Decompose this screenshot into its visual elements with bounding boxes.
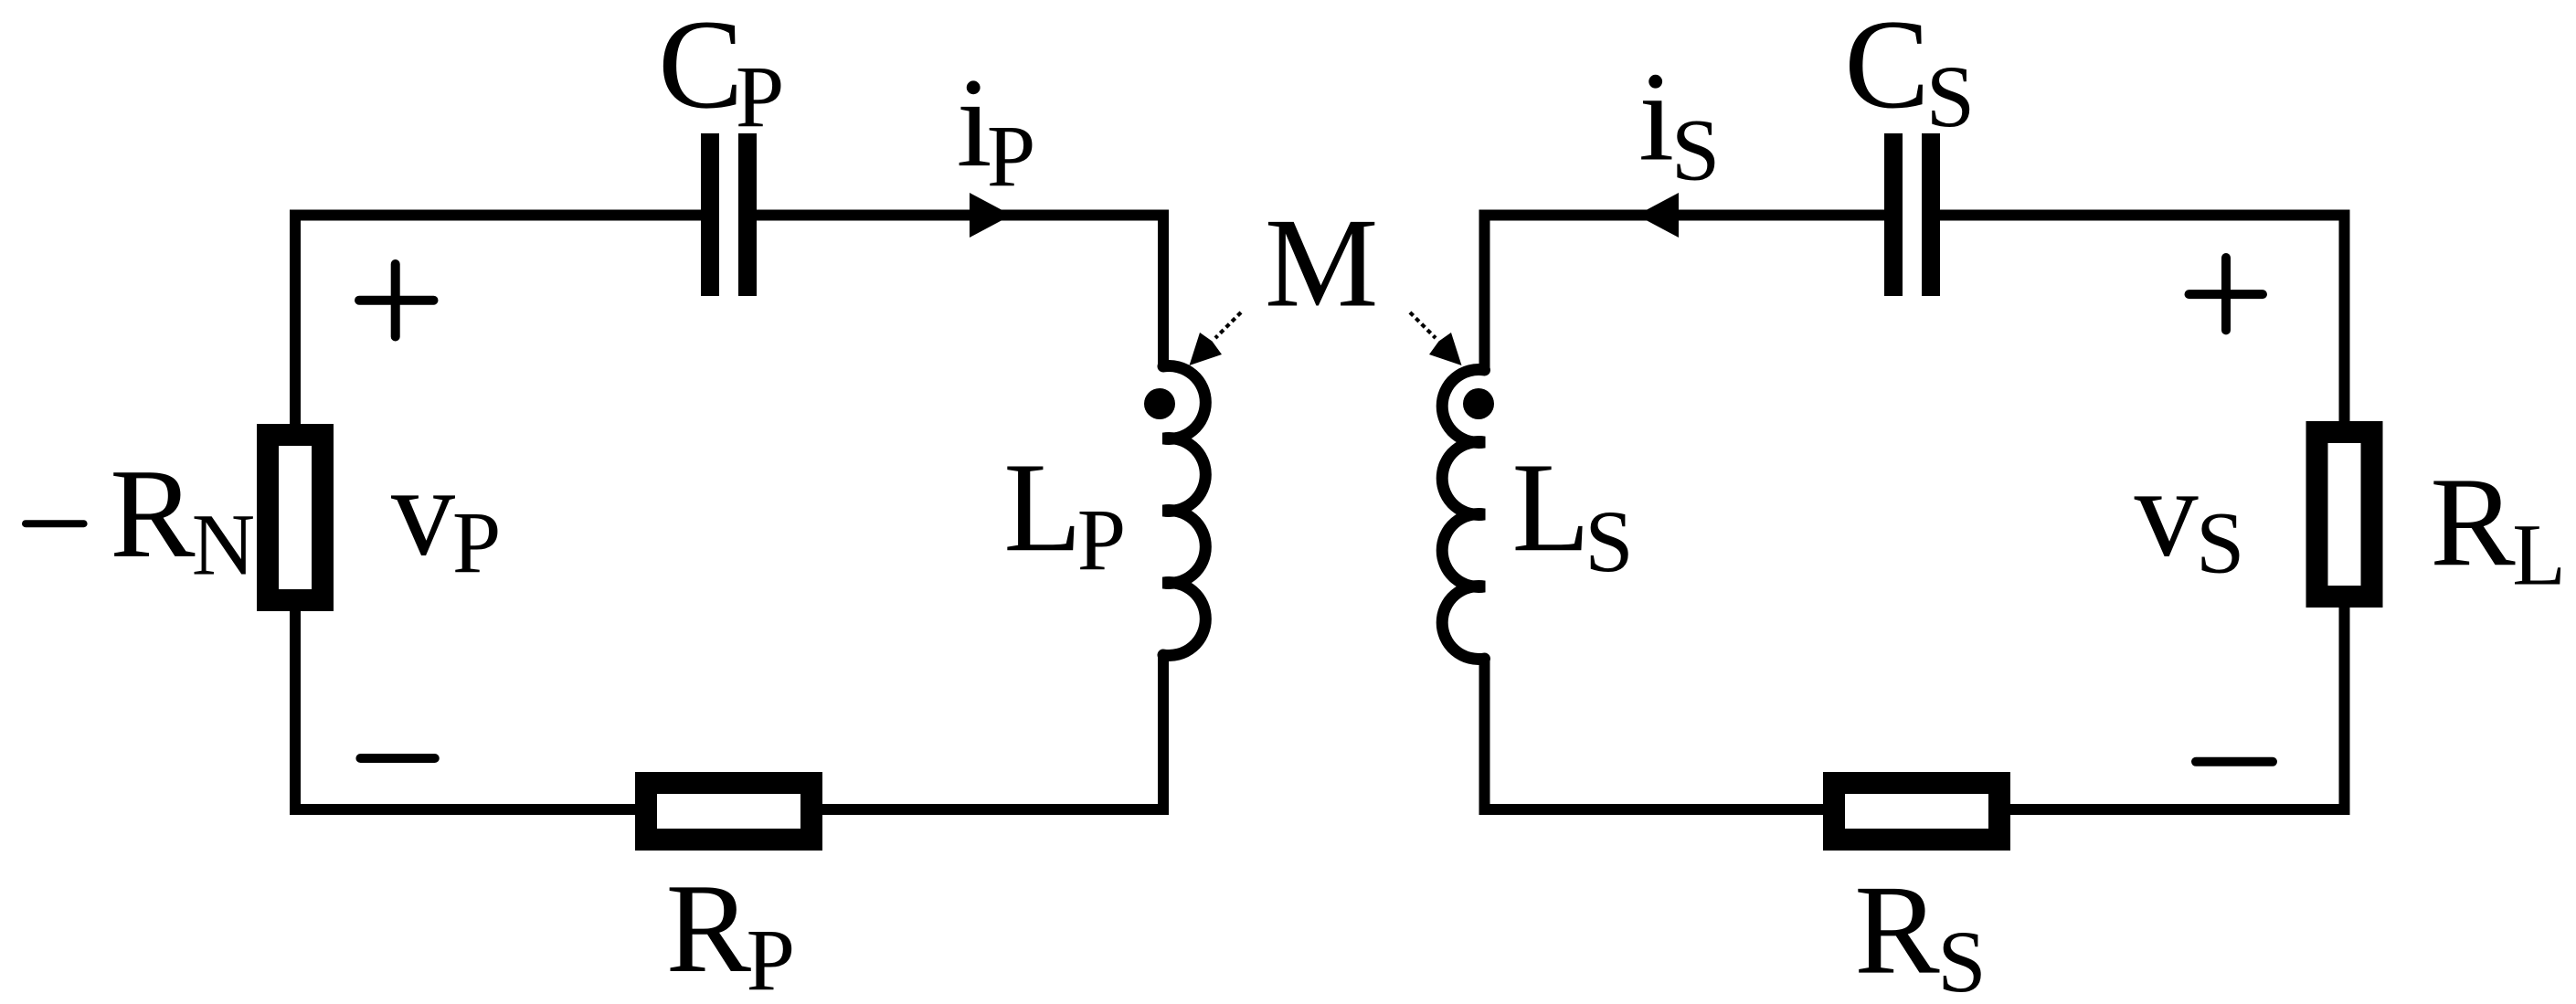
wire: right loop top wire (coil LS top to capacitor CS) (1485, 210, 1885, 371)
current arrow iP (970, 193, 1012, 238)
svg-text:L: L (1003, 437, 1082, 578)
svg-text:R: R (1854, 860, 1940, 1001)
label -RN (minus) (26, 520, 84, 527)
wire: right loop right vertical (RL down to bottom-right corner, to RS) (2010, 608, 2345, 809)
svg-text:S: S (1926, 48, 1975, 145)
wire: right loop bottom wire (RS to coil LS bottom) (1485, 659, 1824, 809)
plus sign (left loop, vP positive terminal) (359, 264, 434, 337)
svg-text:S: S (1671, 100, 1720, 198)
capacitor CS (1884, 133, 1940, 296)
svg-text:i: i (1638, 47, 1674, 188)
resistor RL (2317, 432, 2372, 597)
current arrow iS (1637, 193, 1679, 238)
label CP (658, 0, 784, 145)
label iS (1638, 47, 1720, 199)
svg-text:R: R (666, 858, 752, 999)
plus sign (right loop, vS positive terminal) (2189, 258, 2263, 330)
wire: left loop top wire (capacitor to top-right corner) (757, 210, 1169, 221)
svg-text:P: P (736, 48, 784, 145)
svg-text:C: C (658, 0, 743, 135)
svg-text:P: P (1077, 491, 1126, 588)
svg-text:v: v (2135, 442, 2199, 584)
dotted arrow from M to LP (1190, 312, 1242, 365)
svg-text:S: S (1937, 913, 1986, 1004)
label CS (1844, 0, 1975, 145)
label RN (110, 443, 255, 594)
wire: left loop right vertical (coil LP bottom to bottom wire) (822, 655, 1163, 809)
resistor RP (646, 783, 811, 840)
svg-text:P: P (987, 108, 1035, 206)
coupling dot of LS (1463, 388, 1494, 419)
svg-text:L: L (1512, 437, 1591, 578)
svg-text:C: C (1844, 0, 1929, 135)
wire: left loop left vertical (RN up to top-left corner) (290, 216, 301, 425)
wire: left loop top wire (left segment to capacitor) (295, 216, 701, 221)
label LS (1512, 437, 1634, 590)
wire: left loop bottom wire (RP to bottom-left corner and up to RN) (295, 611, 635, 809)
dotted arrow from M to LS (1410, 312, 1462, 365)
label vP (391, 441, 501, 592)
capacitor CP (701, 133, 757, 296)
label RL (2430, 451, 2566, 604)
label LP (1003, 437, 1126, 588)
svg-text:P: P (452, 493, 501, 591)
svg-text:S: S (1585, 492, 1633, 590)
svg-text:L: L (2512, 506, 2566, 604)
label M (1265, 193, 1378, 334)
label RS (1854, 860, 1986, 1004)
wire: left loop right vertical (corner down to coil LP top) (1158, 210, 1169, 367)
svg-text:S: S (2196, 493, 2244, 591)
label RP (666, 858, 795, 1004)
svg-text:R: R (110, 443, 196, 585)
inductor LP (4 arcs bulging right) (1163, 366, 1205, 656)
inductor LS (4 arcs bulging left) (1442, 370, 1484, 660)
svg-text:R: R (2430, 451, 2516, 593)
svg-text:P: P (747, 912, 795, 1004)
coupling dot of LP (1144, 388, 1175, 419)
svg-text:M: M (1265, 193, 1378, 334)
svg-text:N: N (192, 496, 255, 594)
svg-text:v: v (391, 441, 455, 583)
label vS (2135, 442, 2245, 592)
resistor RN (268, 435, 323, 600)
label iP (957, 52, 1036, 205)
minus sign (left loop, vP negative terminal) (360, 754, 434, 763)
resistor RS (1834, 783, 1999, 840)
wire: right loop top wire (CS to top-right corner, down to RL) (1940, 216, 2345, 422)
minus sign (right loop, vS negative terminal) (2196, 757, 2273, 766)
